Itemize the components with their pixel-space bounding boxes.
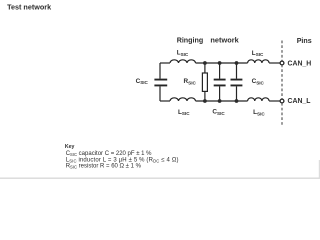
svg-text:Ringing: Ringing xyxy=(177,35,204,44)
svg-text:LSIC inductor L = 3 µH ± 5 % (: LSIC inductor L = 3 µH ± 5 % (RDC ≤ 4 Ω) xyxy=(66,157,179,163)
svg-text:Test network: Test network xyxy=(7,3,51,12)
svg-text:Pins: Pins xyxy=(297,37,312,45)
svg-text:CAN_H: CAN_H xyxy=(288,60,312,67)
svg-text:RSIC resistor R = 60 Ω ± 1 %: RSIC resistor R = 60 Ω ± 1 % xyxy=(66,164,142,170)
svg-text:CAN_L: CAN_L xyxy=(288,98,311,105)
svg-text:network: network xyxy=(210,35,239,44)
svg-text:CSIC capacitor C = 220 pF ± 1: CSIC capacitor C = 220 pF ± 1 % xyxy=(66,151,152,157)
svg-text:Key: Key xyxy=(65,144,75,150)
